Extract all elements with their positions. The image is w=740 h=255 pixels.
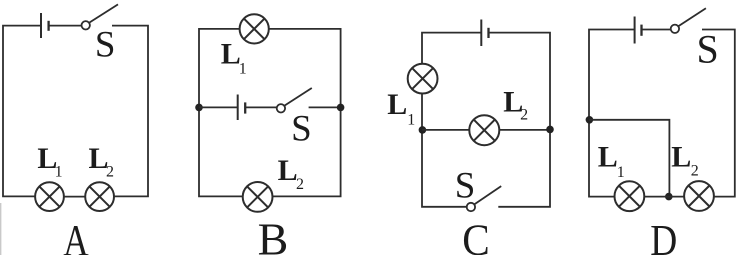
junction dot (left, middle branch) — [195, 104, 203, 112]
lamp L1 (top branch) — [240, 14, 269, 43]
svg-text:1: 1 — [55, 164, 63, 181]
wire: battery to top-right corner, down right side, bottom to switch gap — [489, 33, 551, 207]
svg-text:L: L — [387, 88, 407, 121]
switch S (open) — [671, 8, 706, 33]
svg-text:2: 2 — [520, 106, 528, 123]
svg-text:D: D — [650, 216, 677, 255]
lamp L2 — [85, 182, 114, 211]
svg-text:1: 1 — [617, 164, 625, 181]
lamp L1 (bottom left) — [615, 181, 645, 211]
battery BT3 (cell) — [481, 20, 488, 47]
svg-text:L: L — [671, 140, 691, 173]
switch S (open, bottom branch) — [467, 186, 502, 211]
lamp L2 (bottom branch) — [243, 182, 273, 212]
lamp L1 (left side) — [408, 64, 438, 94]
lamp L1 — [35, 182, 64, 211]
wire: lamp L2 to right junction — [500, 129, 551, 131]
wire: lamp L1 to top-right corner, down right side, bottom-right to lamp L2 — [269, 29, 341, 197]
battery BT2 (cell) — [238, 95, 246, 121]
wire: left junction to lamp L2 — [422, 129, 469, 131]
junction dot (left, middle branch) — [419, 126, 427, 134]
wire: switch gap to top-right corner, down right side, bottom to lamp L2 — [702, 30, 735, 197]
label L1 — [37, 142, 62, 181]
svg-text:S: S — [697, 27, 719, 72]
svg-text:1: 1 — [407, 111, 415, 128]
svg-text:2: 2 — [691, 163, 699, 180]
svg-text:1: 1 — [239, 61, 247, 78]
wire: battery to top-left corner, down to lamp L1 — [422, 33, 481, 64]
circuit B — [195, 14, 344, 255]
svg-text:2: 2 — [296, 176, 304, 193]
junction dot (left side) — [586, 116, 594, 124]
circuit A — [3, 4, 148, 255]
wire: lamp L1 down left side to bottom-left corner, along bottom to switch — [422, 94, 467, 207]
junction dot (right, middle branch) — [337, 104, 345, 112]
wire: battery to top-left corner, down left side, bottom-left to lamp L1 — [589, 30, 635, 197]
label L2 — [671, 140, 699, 179]
wire: left junction to battery — [199, 106, 237, 108]
svg-text:L: L — [598, 140, 618, 173]
svg-text:2: 2 — [106, 164, 114, 181]
lamp L2 (bottom right) — [684, 181, 714, 211]
svg-text:C: C — [462, 216, 490, 255]
wire: battery to switch — [245, 106, 277, 108]
battery BT1 (cell) — [41, 13, 49, 38]
wire: switch gap to top-right corner, down right side to bottom — [112, 26, 148, 197]
wire: top-left corner to lamp L1, left side, bottom-left to lamp L2 — [199, 29, 243, 197]
wire: switch gap to right junction — [309, 106, 341, 108]
label L2 — [503, 85, 528, 123]
label L2 — [89, 142, 115, 181]
junction dot (right, middle branch) — [546, 126, 554, 134]
switch S (open) — [277, 88, 312, 113]
label L1 — [598, 140, 625, 181]
svg-text:S: S — [291, 109, 312, 150]
wire: inner branch from left junction right and down to bottom junction — [589, 120, 669, 197]
wire: battery left plate to top-left corner, down left side, along bottom to lamp L1 — [3, 26, 41, 197]
wire: between lamps through bottom junction — [644, 196, 684, 198]
label L1 — [221, 38, 247, 78]
svg-text:L: L — [278, 154, 298, 187]
battery BT4 (cell) — [635, 17, 642, 44]
wire: battery to switch — [642, 29, 671, 31]
circuit D — [586, 8, 735, 255]
junction dot (bottom, between lamps) — [665, 193, 673, 201]
svg-text:A: A — [63, 216, 89, 255]
svg-text:S: S — [455, 166, 476, 207]
label L1 — [387, 88, 415, 128]
circuit C — [387, 20, 554, 255]
wire: between lamps L1 and L2 — [64, 196, 85, 198]
lamp L2 (middle branch) — [469, 115, 499, 145]
svg-text:B: B — [258, 213, 289, 255]
wire: battery to switch — [49, 25, 82, 27]
label L2 — [278, 154, 304, 193]
svg-text:S: S — [95, 25, 116, 66]
switch S (open) — [82, 4, 119, 29]
